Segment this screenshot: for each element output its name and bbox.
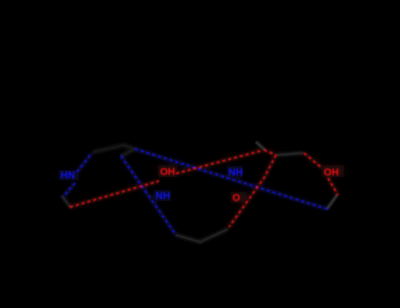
svg-text:OH: OH (160, 167, 175, 178)
svg-text:NH: NH (156, 191, 170, 202)
svg-text:NH: NH (228, 167, 242, 178)
svg-text:OH: OH (324, 167, 339, 178)
svg-text:O: O (232, 193, 240, 204)
svg-text:HN: HN (61, 171, 75, 182)
